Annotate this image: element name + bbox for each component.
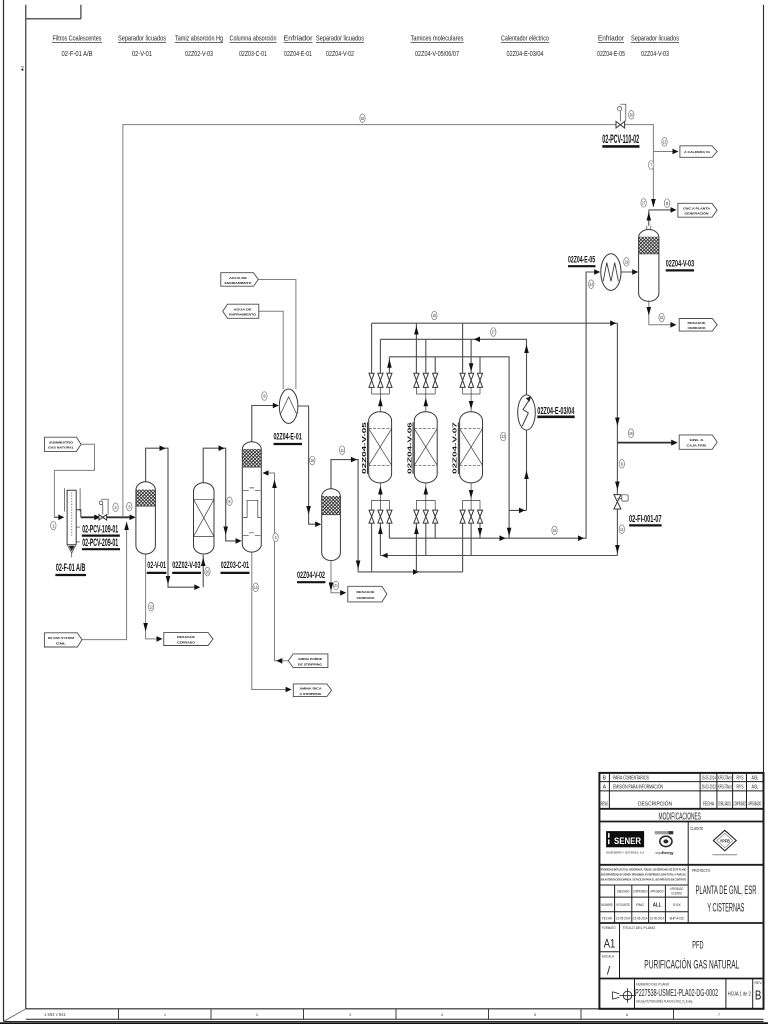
logo YPFB diamond <box>713 830 738 855</box>
svg-text:XXX: XXX <box>673 902 681 907</box>
svg-text:RENG.: RENG. <box>601 802 609 808</box>
svg-text:02-V-01: 02-V-01 <box>147 560 166 570</box>
wire agua de enfriamiento return <box>259 311 283 389</box>
svg-text:16: 16 <box>553 528 557 533</box>
wire dryer bottom header B <box>380 555 617 557</box>
wire V-07 bottom valve stems <box>463 523 480 572</box>
svg-text:GENERACIÓN: GENERACIÓN <box>685 211 710 216</box>
node 27 <box>641 199 646 208</box>
svg-text:Tamiz absorción Hg: Tamiz absorción Hg <box>175 34 223 43</box>
wire dryer top header 1 product <box>372 322 618 324</box>
svg-text:KFG/JMTE: KFG/JMTE <box>616 902 630 907</box>
node 30 <box>629 111 634 120</box>
wire branch a caldera <box>653 151 672 153</box>
node 13 <box>662 138 667 147</box>
svg-text:PLANTA DE GNL, ESR: PLANTA DE GNL, ESR <box>696 885 757 897</box>
svg-text:DIBUJADO: DIBUJADO <box>617 890 630 894</box>
wire de gnc system line <box>82 523 127 640</box>
svg-text:02-PCV-209-01: 02-PCV-209-01 <box>82 537 118 549</box>
svg-text:DESCRIPCIÓN: DESCRIPCIÓN <box>638 801 672 808</box>
label 02Z04-E-01 <box>273 432 302 444</box>
svg-text:02Z04-E-05: 02Z04-E-05 <box>597 49 625 58</box>
label 02Z04-E-03/04 <box>537 405 574 417</box>
svg-text:02Z04-V-06: 02Z04-V-06 <box>407 422 413 474</box>
svg-text:15-05-2014: 15-05-2014 <box>633 917 647 921</box>
flag desague cerrado V-03 <box>679 319 717 332</box>
node 11 <box>339 446 344 455</box>
titleblock logos row <box>687 822 689 924</box>
node 12 <box>148 602 153 611</box>
svg-text:9: 9 <box>263 394 266 399</box>
wire V-05 bottom valve stems <box>372 523 390 572</box>
svg-text:SIN AUTORIZACIÓN EXPRESA. SE F: SIN AUTORIZACIÓN EXPRESA. SE FACILITA PA… <box>601 876 687 881</box>
svg-text:5: 5 <box>534 1013 536 1017</box>
svg-text:A1: A1 <box>604 937 616 951</box>
svg-text:23: 23 <box>502 434 506 439</box>
column title Columna absorcion 02Z03-C-01 <box>230 34 277 58</box>
flag suministro gas natural <box>45 437 82 451</box>
wire dry product line with FI <box>616 323 618 555</box>
svg-text:Y CISTERNAS: Y CISTERNAS <box>707 903 744 915</box>
label 02-PCV-110-02 <box>602 132 639 147</box>
svg-text:15-05-2014: 15-05-2014 <box>702 775 716 781</box>
label 02Z04-V-06 vertical <box>407 422 413 474</box>
svg-text:10: 10 <box>254 585 258 590</box>
svg-text:Columna absorción: Columna absorción <box>230 34 277 43</box>
node 17 <box>491 328 496 337</box>
valve manifold top 02Z04-V-06 <box>414 373 438 412</box>
flag a caldera 01 <box>680 146 717 158</box>
wire Hg bed top to column C-01 <box>203 448 240 541</box>
svg-text:APROBADO: APROBADO <box>748 802 761 808</box>
svg-text:02Z03-C-01: 02Z03-C-01 <box>239 49 267 58</box>
svg-text:26-03-2013: 26-03-2013 <box>702 785 716 791</box>
svg-text:2: 2 <box>256 1013 258 1017</box>
projection symbol <box>613 988 636 1002</box>
svg-text:6: 6 <box>626 1013 628 1017</box>
svg-text:GNC A PLANTA: GNC A PLANTA <box>683 207 711 211</box>
svg-text:GNL: GNL <box>56 641 66 645</box>
svg-text:27: 27 <box>642 201 646 206</box>
svg-text:cryoEnergy: cryoEnergy <box>656 851 674 855</box>
svg-text:B: B <box>755 988 762 1003</box>
flag desague cerrado V-02 <box>348 586 387 602</box>
svg-text:AMINA POBRE: AMINA POBRE <box>298 657 322 661</box>
svg-text:GAS NATURAL: GAS NATURAL <box>48 446 74 450</box>
exchanger 02Z04-E-01 <box>279 389 298 423</box>
valve manifold bottom 02Z04-V-05 <box>369 483 392 523</box>
svg-text:5: 5 <box>228 499 231 504</box>
svg-text:15-05-2014: 15-05-2014 <box>650 917 664 921</box>
electric heater 02Z04-E-03/04 <box>518 395 536 430</box>
wire suministro inlet <box>54 444 94 517</box>
label 02Z04-V-05 vertical <box>362 422 368 474</box>
svg-text:A STRIPPING: A STRIPPING <box>300 692 323 696</box>
svg-text:15: 15 <box>433 313 437 318</box>
node 16 <box>552 526 557 535</box>
label 02Z04-E-05 <box>568 254 596 266</box>
svg-text:Separador licuados: Separador licuados <box>316 34 364 43</box>
svg-text:Enfriador: Enfriador <box>284 34 314 43</box>
svg-text:02Z04-E-01: 02Z04-E-01 <box>273 432 301 442</box>
svg-text:YPFB: YPFB <box>720 839 731 844</box>
node 9 <box>262 392 267 401</box>
svg-text:02Z02-V-03: 02Z02-V-03 <box>172 560 200 570</box>
dryer vessel 02Z04-V-05 <box>369 412 392 483</box>
svg-text:4: 4 <box>275 535 278 540</box>
flag gnc a planta generacion <box>678 203 717 217</box>
node 22 <box>659 313 664 322</box>
svg-text:COMPROBADO: COMPROBADO <box>633 890 648 894</box>
svg-text:02Z04-E-03/04: 02Z04-E-03/04 <box>507 49 544 58</box>
svg-text:17: 17 <box>492 330 496 335</box>
svg-text:DESAGÜE: DESAGÜE <box>357 590 375 594</box>
label 02Z03-C-01 <box>221 560 250 573</box>
label 02Z04-V-07 vertical <box>453 422 459 474</box>
svg-text:7: 7 <box>718 1013 720 1017</box>
svg-text:26: 26 <box>629 431 633 436</box>
wire gnc a planta junction <box>649 209 673 211</box>
svg-text:02Z04-V-02: 02Z04-V-02 <box>326 49 354 58</box>
wire dryer top header 3 <box>389 357 509 538</box>
column title Filtros Coalescentes 02-F-01 A/B <box>52 34 102 58</box>
svg-text:02Z04-V-05: 02Z04-V-05 <box>362 422 368 474</box>
wire V-02 top feed to dryer bottom header <box>331 460 358 572</box>
filter 02-F-01 A/B <box>64 488 80 557</box>
svg-text:18: 18 <box>311 458 315 463</box>
column title Enfriador 02Z04-E-01 <box>284 34 314 58</box>
svg-text:02-V-01: 02-V-01 <box>132 49 152 58</box>
svg-text:4: 4 <box>441 1013 443 1017</box>
node 14 <box>619 525 624 534</box>
wire dryer top header 2 regen hot <box>380 339 526 395</box>
wire heater link <box>509 509 526 511</box>
svg-text:2: 2 <box>115 505 118 510</box>
wire V-01 drain to desague <box>146 554 161 639</box>
flag amina rica a stripping <box>293 684 331 697</box>
svg-text:CERRADO: CERRADO <box>177 640 196 644</box>
node 7 <box>649 161 654 170</box>
svg-text:FECHA: FECHA <box>703 802 714 808</box>
wire C-01 top to E-01 <box>252 406 278 442</box>
svg-text:22: 22 <box>660 315 664 320</box>
svg-text:AMINA RICA: AMINA RICA <box>300 687 323 691</box>
svg-text:24: 24 <box>590 282 594 287</box>
logo cryoenergy <box>655 831 674 855</box>
wire dryer bottom header C <box>358 571 463 573</box>
svg-text:SON PROPIEDAD DE SENER. PROHIB: SON PROPIEDAD DE SENER. PROHIBIDA SU REP… <box>601 871 687 876</box>
titleblock notes <box>601 867 687 881</box>
svg-text:TÍTULO DEL PLANO: TÍTULO DEL PLANO <box>622 926 655 930</box>
svg-text:AGUA DE: AGUA DE <box>234 308 252 312</box>
titleblock signature table <box>599 885 763 923</box>
vessel 02Z02-V-03 mercury bed <box>194 483 215 554</box>
svg-text:Ref.dwg P227538-USME1-PLA02-DG: Ref.dwg P227538-USME1-PLA02-DG-0002_01_B… <box>636 1000 692 1004</box>
EQUIPMENT <box>64 104 659 560</box>
label 02Z04-V-03 <box>666 258 694 270</box>
vessel 02Z04-V-02 <box>322 489 341 561</box>
node 10 <box>253 583 258 592</box>
column title Separador licuados 02Z04-V-03 <box>631 34 679 58</box>
wire gas a caja fria branch <box>617 442 675 444</box>
svg-text:P227538-USME1-PLA02-DG-0002: P227538-USME1-PLA02-DG-0002 <box>635 988 718 999</box>
wire V-03 drain to desague <box>649 301 674 325</box>
svg-text:02Z04-V-07: 02Z04-V-07 <box>453 422 459 474</box>
svg-text:PROYECTO: PROYECTO <box>692 868 711 873</box>
svg-text:02Z04-E-01: 02Z04-E-01 <box>284 49 312 58</box>
svg-text:02-PCV-110-02: 02-PCV-110-02 <box>602 132 639 146</box>
svg-text:SUMINISTRO: SUMINISTRO <box>49 441 74 445</box>
svg-text:DESAGÜE: DESAGÜE <box>688 321 706 325</box>
dryer vessel 02Z04-V-07 <box>460 412 483 483</box>
svg-text:Enfriador: Enfriador <box>598 34 624 43</box>
svg-text:02-F-01 A/B: 02-F-01 A/B <box>62 49 93 58</box>
svg-text:02Z04-V-05/06/07: 02Z04-V-05/06/07 <box>415 49 459 58</box>
wire amine lean into C-01 <box>264 473 289 661</box>
valve manifold top 02Z04-V-05 <box>369 373 392 412</box>
svg-text:Tamices moleculares: Tamices moleculares <box>411 34 464 43</box>
svg-text:APROBADO: APROBADO <box>651 890 664 894</box>
svg-text:11: 11 <box>340 448 344 453</box>
separator 02Z04-V-03 <box>639 226 659 302</box>
vessel 02-V-01 <box>136 482 156 554</box>
wire V-05 top valve stems <box>372 323 390 373</box>
flag gas a caja fria <box>679 435 717 449</box>
svg-text:7: 7 <box>650 163 653 168</box>
svg-text:ESCALA: ESCALA <box>602 955 615 959</box>
svg-text:1: 1 <box>52 523 55 528</box>
node 23 <box>501 432 506 441</box>
svg-text:MODIFICACIONES: MODIFICACIONES <box>659 810 702 822</box>
svg-text:A: A <box>603 785 607 791</box>
svg-text:12: 12 <box>149 604 153 609</box>
node 4 <box>273 533 278 542</box>
svg-text:02Z04-V-03: 02Z04-V-03 <box>641 49 669 58</box>
wire V-01 top gas to Hg bed <box>146 448 199 587</box>
wire agua de enfriamiento supply <box>258 280 296 390</box>
svg-text:02-F-01 A/B: 02-F-01 A/B <box>56 562 86 574</box>
svg-text:Separador licuados: Separador licuados <box>631 34 679 43</box>
wire filter outlet to main line <box>76 510 81 518</box>
node 20 <box>205 567 210 576</box>
svg-text:ENFRIAMIENTO: ENFRIAMIENTO <box>229 313 257 317</box>
wire V-07 top valve stems <box>463 323 480 373</box>
wire PCV-110 riser and top line <box>123 125 616 518</box>
svg-text:1: 1 <box>164 1013 166 1017</box>
svg-text:02Z04-E-03/04: 02Z04-E-03/04 <box>537 405 574 417</box>
svg-text:DESAGÜE: DESAGÜE <box>177 635 195 639</box>
svg-text:INGENIERÍA Y SISTEMAS, S.A.: INGENIERÍA Y SISTEMAS, S.A. <box>606 851 645 855</box>
svg-text:02-FI-001-07: 02-FI-001-07 <box>629 513 662 525</box>
svg-text:02Z04-E-05: 02Z04-E-05 <box>568 254 595 264</box>
svg-text:02Z03-C-01: 02Z03-C-01 <box>221 560 249 570</box>
svg-text:AGL: AGL <box>752 775 759 781</box>
wire E-01 outlet to V-02 <box>298 406 320 524</box>
column title Tamiz absorcion Hg 02Z02-V-03 <box>175 34 223 58</box>
svg-text:DE STRIPPING: DE STRIPPING <box>298 662 323 666</box>
svg-text:1 594 x 841: 1 594 x 841 <box>44 1012 67 1017</box>
titleblock revision rows <box>599 773 763 822</box>
svg-text:DE GNC SYSTEM: DE GNC SYSTEM <box>48 636 74 640</box>
column 02Z03-C-01 <box>242 442 261 552</box>
svg-text:RYS: RYS <box>737 775 744 781</box>
node 21 <box>333 581 338 590</box>
svg-text:BHP-A-022: BHP-A-022 <box>670 917 684 921</box>
exchanger 02Z04-E-05 <box>601 254 621 291</box>
svg-text:NOMBRE: NOMBRE <box>601 903 613 907</box>
svg-text:15-05-2014: 15-05-2014 <box>616 917 630 921</box>
svg-text:25: 25 <box>361 116 365 121</box>
svg-text:13: 13 <box>663 140 667 145</box>
node 3 <box>127 502 132 511</box>
label 02Z04-V-02 <box>297 570 325 582</box>
svg-text:02Z04-V-02: 02Z04-V-02 <box>297 570 325 580</box>
svg-text:CLIENTE: CLIENTE <box>671 892 683 896</box>
svg-text:6: 6 <box>621 462 624 467</box>
svg-text:RYS: RYS <box>737 785 744 791</box>
label 02-FI-001-07 <box>629 513 662 525</box>
svg-text:PARA COMENTARIOS: PARA COMENTARIOS <box>613 775 649 781</box>
svg-text:CAJA FRÍA: CAJA FRÍA <box>687 443 708 448</box>
column title Enfriador 02Z04-E-05 <box>597 34 625 58</box>
node 24 <box>589 280 594 289</box>
svg-text:Separador licuados: Separador licuados <box>118 34 166 43</box>
node 18 <box>310 456 315 465</box>
svg-text:COMPROBADO: COMPROBADO <box>734 802 747 808</box>
svg-text:02Z02-V-03: 02Z02-V-03 <box>185 49 213 58</box>
valve 02-FI-001-07 <box>614 495 628 509</box>
FLAGS <box>44 146 717 697</box>
svg-text:19: 19 <box>625 260 629 265</box>
wire heater riser <box>526 430 528 510</box>
column title Calentador electrico 02Z04-E-03/04 <box>501 34 549 58</box>
svg-text:ALL: ALL <box>653 903 662 909</box>
svg-text:GNL A: GNL A <box>690 438 705 442</box>
BUBBLES <box>51 111 670 612</box>
column title Separador licuados 02-V-01 <box>118 34 166 58</box>
label 02-PCV-209-01 <box>82 537 120 549</box>
wire E-05 to V-03 <box>621 271 637 273</box>
label 02-PCV-109-01 <box>82 524 120 536</box>
node 19 <box>624 258 629 267</box>
svg-text:APROBADO: APROBADO <box>670 887 683 891</box>
svg-text:21: 21 <box>334 583 338 588</box>
flag agua de enfriamiento supply <box>221 273 258 287</box>
label 02Z02-V-03 <box>172 560 201 573</box>
valve 02-PCV-110-02 <box>616 104 626 128</box>
node 15 <box>432 311 437 320</box>
svg-text:NÚMERO DEL PLANO: NÚMERO DEL PLANO <box>636 981 669 986</box>
svg-text:KFG/JTAnd: KFG/JTAnd <box>718 775 732 781</box>
svg-text:EMISIÓN PARA INFORMACIÓN: EMISIÓN PARA INFORMACIÓN <box>613 784 663 791</box>
svg-text:30: 30 <box>630 113 634 118</box>
wire V-02 drain to desague <box>331 561 344 593</box>
TITLEBLOCK <box>599 773 763 1009</box>
svg-text:HOJA 1 de 2: HOJA 1 de 2 <box>728 991 751 997</box>
wire V-06 bottom valve stems <box>416 523 435 572</box>
svg-text:FORMATO: FORMATO <box>602 926 616 930</box>
label 02-F-01 A/B <box>55 562 86 575</box>
valve 02-PCV-109-01 <box>99 499 108 520</box>
node 26 <box>628 429 633 438</box>
bottom row cells <box>635 979 753 1009</box>
svg-text:SENER: SENER <box>614 836 641 847</box>
svg-text:20: 20 <box>206 569 210 574</box>
svg-text:14: 14 <box>620 527 624 532</box>
valve manifold top 02Z04-V-07 <box>460 373 483 412</box>
svg-text:02Z04-V-03: 02Z04-V-03 <box>666 258 694 268</box>
svg-text:Filtros Coalescentes: Filtros Coalescentes <box>53 34 102 43</box>
svg-text:PFD: PFD <box>692 939 703 951</box>
svg-text:CLIENTE: CLIENTE <box>690 826 703 831</box>
svg-text:Calentador eléctrico: Calentador eléctrico <box>501 34 549 43</box>
flag desague cerrado V-01 <box>164 632 213 645</box>
svg-text:DIBUJADO: DIBUJADO <box>718 802 731 808</box>
column title Separador licuados 02Z04-V-02 <box>316 34 364 58</box>
svg-text:PROPIEDAD INTELECTUAL RESERVAD: PROPIEDAD INTELECTUAL RESERVADA. TODOS L… <box>601 867 687 871</box>
flag agua de enfriamiento return <box>223 304 259 318</box>
valve manifold bottom 02Z04-V-07 <box>460 483 483 523</box>
dryer vessel 02Z04-V-06 <box>414 412 437 483</box>
valve manifold bottom 02Z04-V-06 <box>414 483 438 523</box>
flag amina pobre de stripping <box>288 654 328 668</box>
column title Tamices moleculares 02Z04-V-05/06/07 <box>411 34 464 58</box>
node 2 <box>113 503 118 512</box>
wire V-06 top valve stems <box>416 323 435 373</box>
svg-text:CERRADO: CERRADO <box>357 596 376 600</box>
svg-text:B: B <box>603 775 607 781</box>
node 5 <box>227 497 232 506</box>
titleblock outer box <box>599 773 763 1009</box>
node 25 <box>360 114 365 123</box>
svg-text:CERRADO: CERRADO <box>688 326 707 330</box>
HEADERS <box>52 34 679 58</box>
wire amine rich from C-01 bottom <box>252 552 290 689</box>
logo SENER <box>606 831 645 854</box>
svg-text:RNC: RNC <box>636 902 644 907</box>
svg-text:8: 8 <box>666 201 669 206</box>
svg-text:ENFRIAMIENTO: ENFRIAMIENTO <box>225 281 253 285</box>
svg-text:3: 3 <box>128 504 131 509</box>
svg-text:FECHA: FECHA <box>602 917 613 921</box>
wire V-03 top riser <box>648 210 650 226</box>
svg-text:PURIFICACIÓN GAS NATURAL: PURIFICACIÓN GAS NATURAL <box>644 956 739 971</box>
svg-text:02-PCV-109-01: 02-PCV-109-01 <box>82 524 118 536</box>
label 02-V-01 <box>147 560 167 573</box>
svg-text:AGL: AGL <box>752 785 759 791</box>
wire dryer bottom header A to E-05 <box>389 272 599 538</box>
svg-text:A CALDERA 01: A CALDERA 01 <box>684 150 710 154</box>
flag de gnc system gnl <box>44 633 82 647</box>
svg-text:3: 3 <box>349 1013 351 1017</box>
svg-text:REV.: REV. <box>755 981 763 985</box>
node 6 <box>619 460 624 469</box>
wire main feed line <box>81 516 135 518</box>
formato escala cells <box>599 923 763 979</box>
node 1 <box>51 521 56 530</box>
node 8 <box>664 199 669 208</box>
svg-text:KFG/JTAnd: KFG/JTAnd <box>718 785 732 791</box>
svg-text:AGUA DE: AGUA DE <box>229 276 247 280</box>
